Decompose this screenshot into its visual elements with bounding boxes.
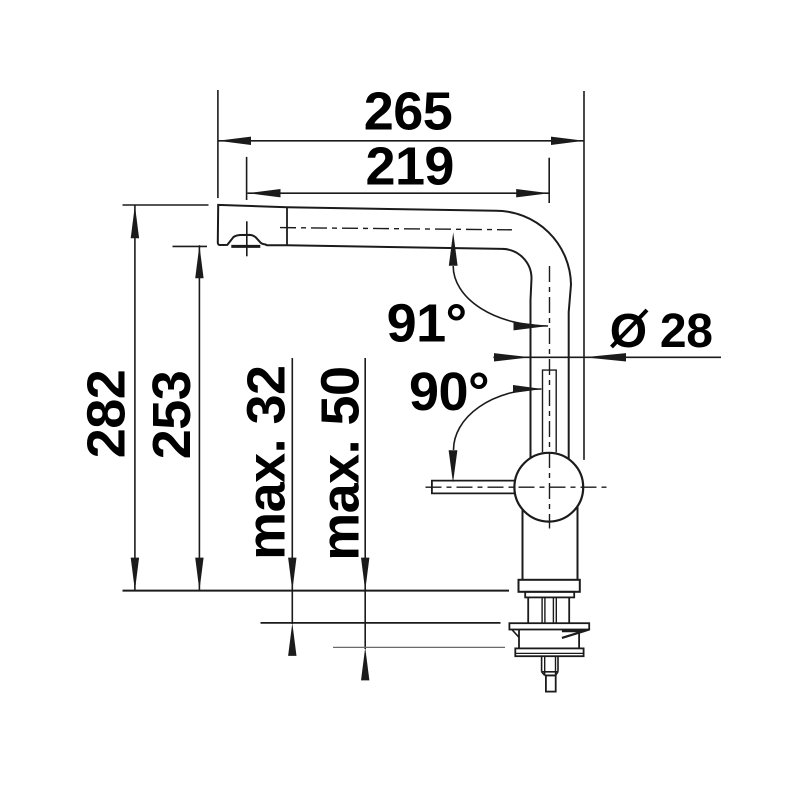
hose tube inside pipe [543, 370, 557, 452]
dim line max50 [364, 358, 366, 649]
aerator axis [246, 221, 248, 256]
arrow max50 down [361, 558, 369, 591]
arrow dia28 right pointing left [584, 353, 626, 361]
shank rods [542, 597, 556, 623]
clamp plate inner line [515, 652, 583, 654]
extension line top-left 282 [123, 204, 209, 206]
arrow 90 right [513, 385, 542, 393]
arrow max32 up [288, 623, 296, 656]
dim line 219 [248, 192, 550, 194]
centerline pipe vertical [549, 266, 551, 529]
base flange [519, 580, 580, 592]
extension line left tip of spout [217, 90, 219, 198]
right claw wedge [562, 630, 589, 638]
mounting washer plate [509, 623, 589, 629]
centerline spout [280, 228, 512, 230]
dim line 265 [218, 140, 584, 142]
arrow max50 up [361, 647, 369, 680]
arrow 219 right [516, 189, 549, 197]
arc 91 deg [453, 266, 548, 326]
threaded stud [546, 675, 556, 691]
line max50 level [333, 646, 505, 648]
aerator face [231, 245, 260, 248]
spout outline [218, 205, 571, 459]
dim line 282 [134, 205, 136, 590]
ball joint [514, 453, 583, 522]
arrow 253 top [195, 245, 203, 278]
svg-text:282: 282 [77, 370, 137, 458]
svg-text:max. 32: max. 32 [237, 365, 297, 559]
svg-text:219: 219 [365, 137, 453, 197]
arrow max32 down [288, 558, 296, 591]
centerline handle [426, 486, 609, 488]
dim line dia28 [493, 356, 721, 358]
dim line max32 [291, 358, 293, 624]
arrow dia28 left pointing right [494, 353, 531, 361]
svg-text:265: 265 [364, 82, 452, 142]
arrow 265 right [551, 137, 584, 145]
dim line 253 [198, 245, 200, 590]
lever handle [432, 481, 515, 494]
svg-text:90°: 90° [409, 362, 489, 422]
spout joint line [286, 207, 288, 245]
arc 90 deg [454, 389, 542, 450]
arrow 219 left [248, 189, 281, 197]
extension line left 253 [173, 245, 208, 247]
arrow 282 bottom [131, 558, 139, 591]
arrow 91 right [514, 322, 549, 331]
base plate 2 [525, 592, 574, 598]
clamp bottom plate [515, 648, 583, 656]
extension line right 265 [583, 91, 585, 460]
body below ball [523, 506, 578, 580]
hex nut inner lines [545, 656, 556, 675]
diameter slash [612, 310, 648, 347]
hex nut [542, 656, 558, 675]
arrow 282 top [131, 205, 139, 238]
shank outer walls [528, 597, 569, 623]
baseline counter top [123, 590, 510, 592]
arrow 90 down [449, 450, 458, 483]
extension line pipe axis 219 [548, 158, 550, 203]
left claw wedge [512, 630, 519, 638]
clamp cylinder [519, 630, 579, 649]
arrow 253 bottom [195, 558, 203, 591]
svg-text:max. 50: max. 50 [311, 366, 371, 560]
svg-text:253: 253 [142, 371, 202, 459]
extension line aerator 219 [246, 157, 248, 200]
line max32 level [261, 622, 501, 624]
svg-text:91°: 91° [387, 294, 467, 354]
arrow 265 left [218, 137, 251, 145]
arrow 91 up [449, 232, 458, 266]
